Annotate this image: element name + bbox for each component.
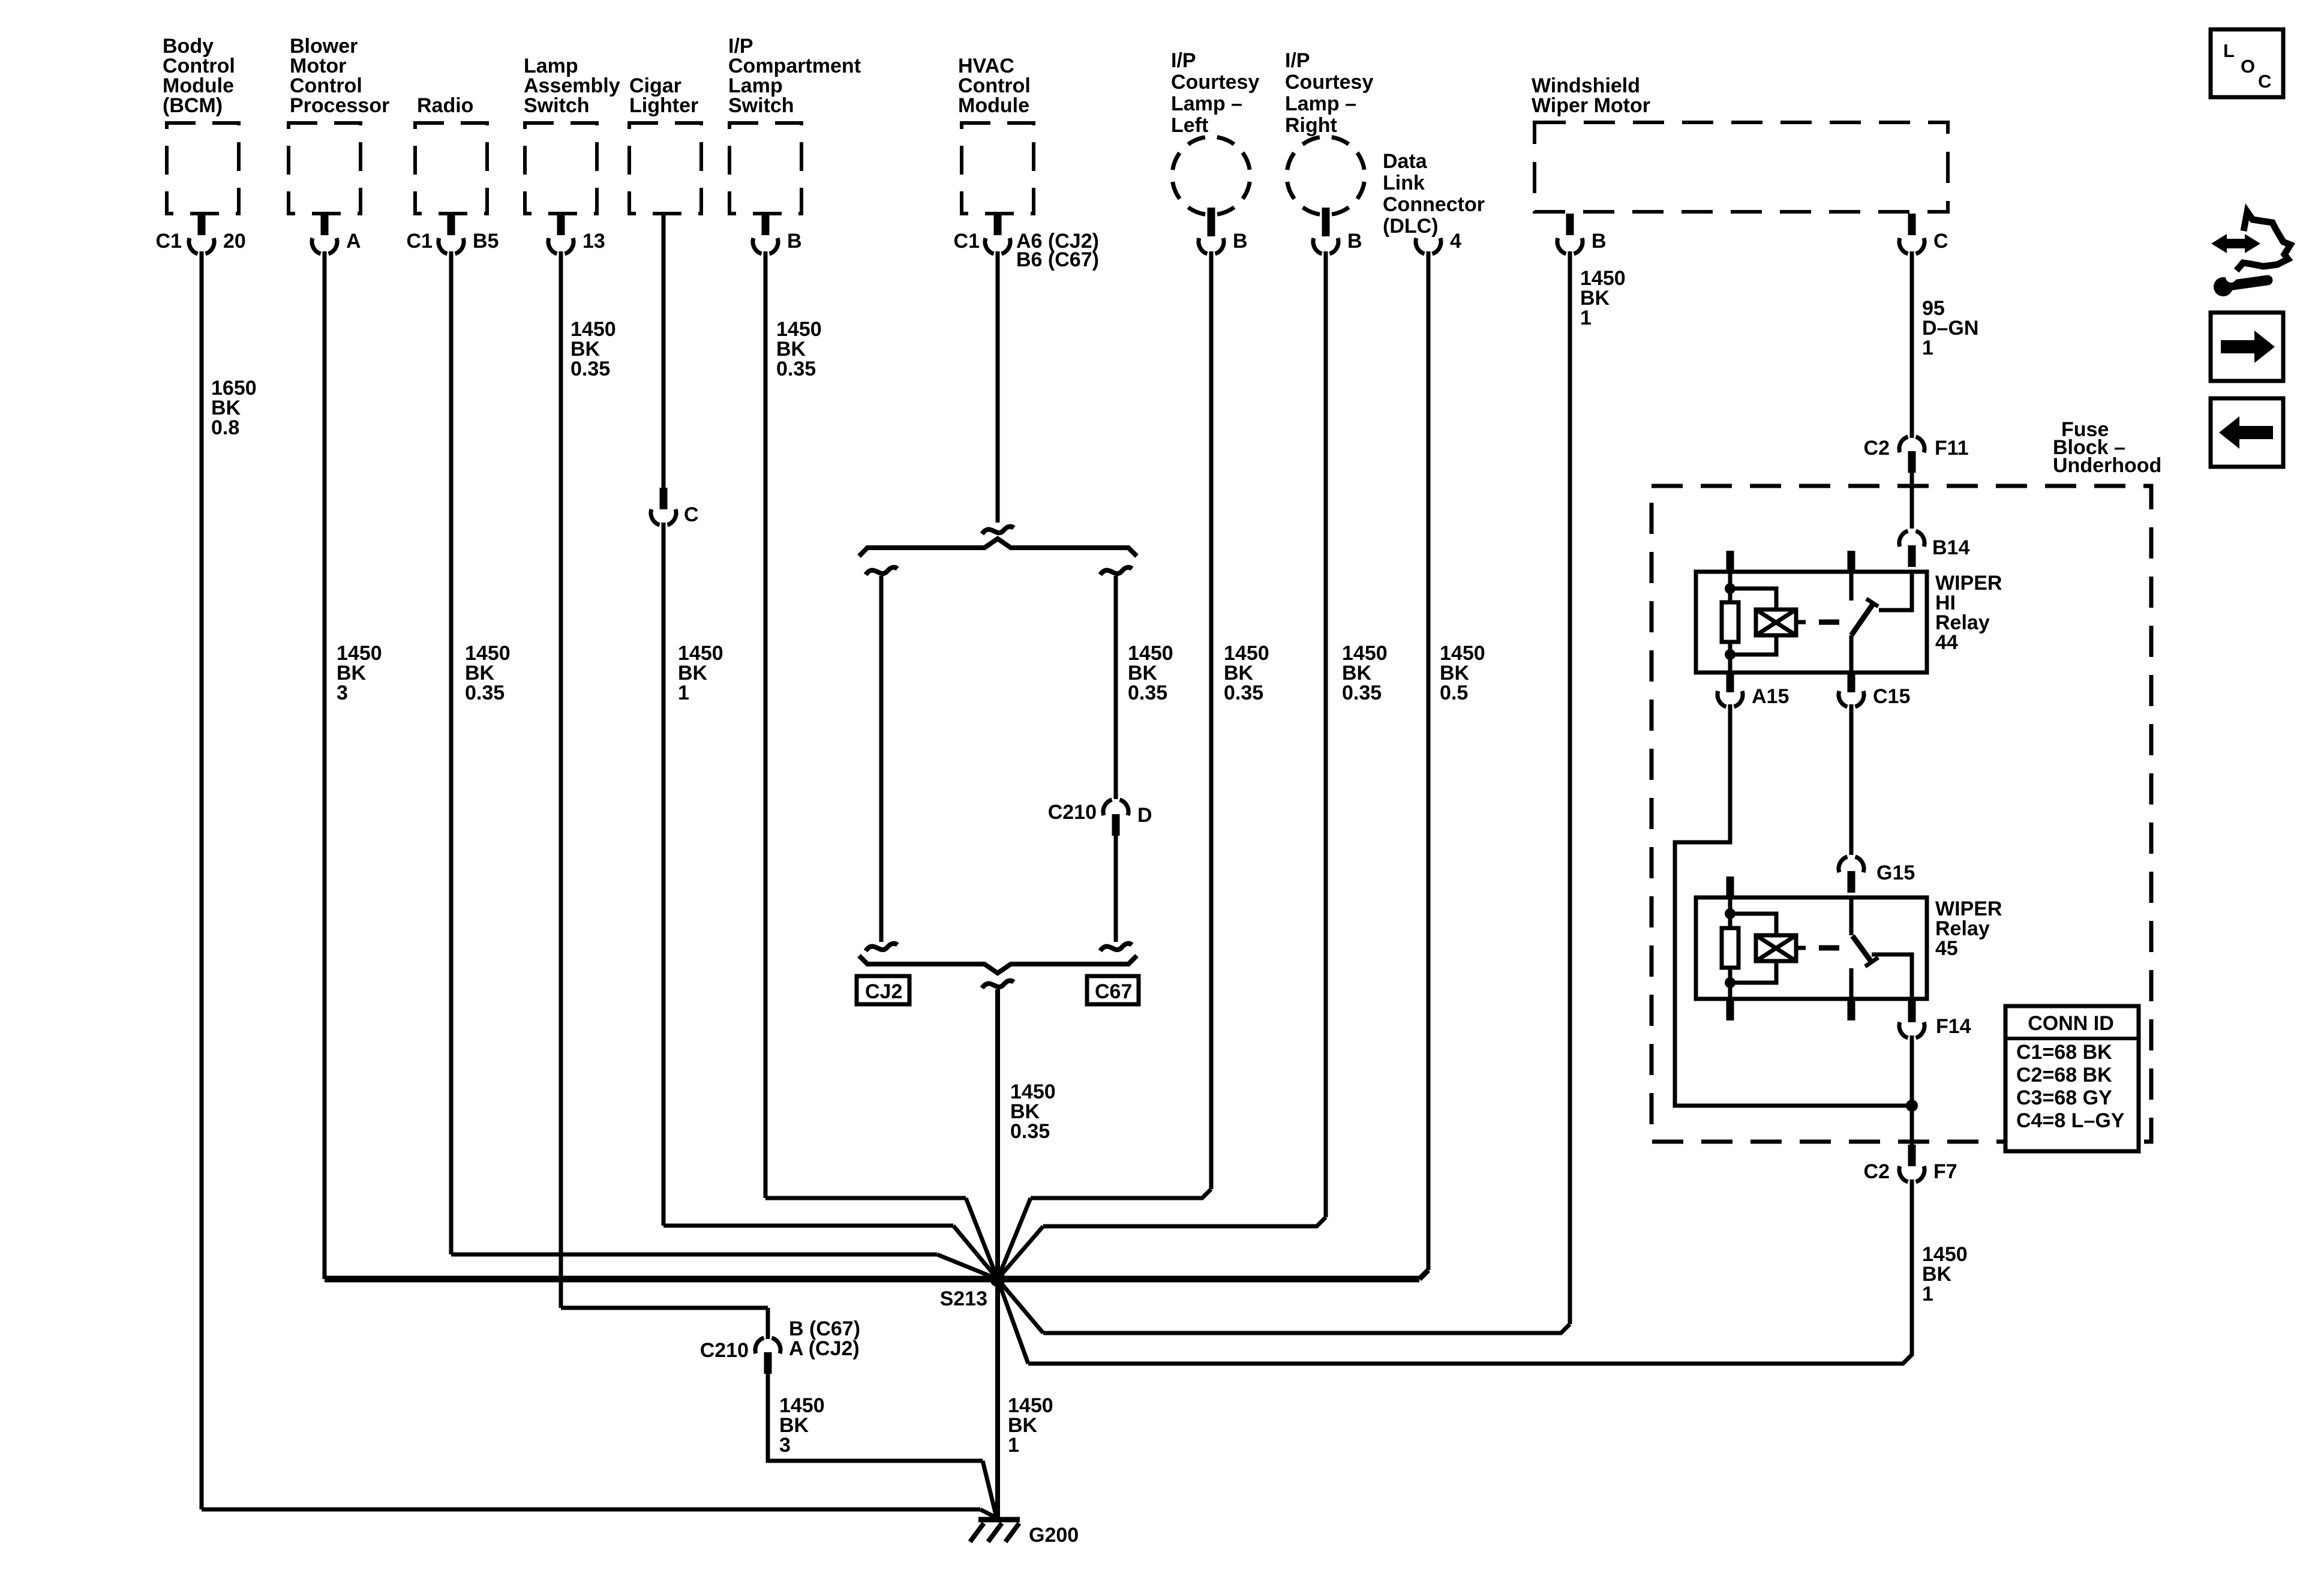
svg-text:C2=68 BK: C2=68 BK xyxy=(2016,1064,2112,1086)
relay coil (relay 44) xyxy=(1756,610,1796,635)
component box: Lamp Assembly Switch xyxy=(525,123,597,214)
junction dot relay45 top xyxy=(1725,908,1736,919)
connector pin: I/P Compartment B xyxy=(762,214,770,235)
svg-text:F14: F14 xyxy=(1936,1015,1971,1038)
connector pin: Radio C1 xyxy=(448,214,455,235)
wire: Wiper Motor C wire 95 D-GN 1 xyxy=(1910,251,1914,438)
connector cup: Wiper Motor pin C xyxy=(1899,238,1908,254)
wire: F14 down to F7 xyxy=(1910,1035,1914,1146)
junction dot relay44 bottom xyxy=(1725,649,1736,660)
wire: I/P Compartment diagonal into splice S213 xyxy=(966,1198,998,1279)
component: I/P Courtesy Lamp - Left (dashed circle) xyxy=(1172,137,1250,215)
wire: Courtesy Right horizontal xyxy=(1043,1217,1326,1226)
connector pin: F7 xyxy=(1908,1145,1916,1166)
relay box: WIPER Relay 45 xyxy=(1696,897,1927,999)
icon: vehicle body outline xyxy=(2236,212,2290,271)
svg-text:Right: Right xyxy=(1285,114,1337,137)
svg-text:S213: S213 xyxy=(940,1287,987,1310)
svg-text:0.35: 0.35 xyxy=(1342,682,1382,704)
wire: I/P Compartment wire 1450 BK 0.35 vertical xyxy=(764,251,768,1198)
svg-text:Processor: Processor xyxy=(290,94,389,117)
wire: Courtesy Left horizontal xyxy=(1031,1189,1211,1198)
connector cup: Cigar inline connector C xyxy=(651,509,660,525)
fuse block: Fuse Block - Underhood (dashed box) xyxy=(1652,486,2151,1142)
svg-text:B: B xyxy=(1233,230,1248,253)
svg-text:Lamp –: Lamp – xyxy=(1285,92,1356,115)
connector cup: A15 xyxy=(1718,691,1727,707)
svg-text:0.35: 0.35 xyxy=(465,682,505,704)
wire: DLC wire 1450 BK 0.5 vertical xyxy=(1427,251,1431,1270)
relay 44 coil parallel link bottom xyxy=(1730,635,1776,655)
svg-text:20: 20 xyxy=(223,230,246,253)
wire: Wiper Motor B wire 1450 BK 1 vertical xyxy=(1568,251,1572,1324)
wire: C67 inner wire lower xyxy=(1114,836,1118,942)
wire: Cigar horizontal to splice xyxy=(663,1224,953,1228)
svg-text:0.35: 0.35 xyxy=(571,358,610,380)
component box: Cigar Lighter xyxy=(629,123,701,214)
svg-text:1: 1 xyxy=(1922,337,1933,359)
svg-text:(DLC): (DLC) xyxy=(1383,215,1439,238)
relay 45 bottom stub right xyxy=(1848,999,1855,1020)
svg-text:C1: C1 xyxy=(407,230,433,253)
connector dome: C2 F11 xyxy=(1899,437,1908,452)
connector cup: F14 xyxy=(1899,1022,1908,1038)
break squiggle left inner top xyxy=(866,568,897,575)
wire: F11 to B14 xyxy=(1910,473,1914,529)
svg-text:Switch: Switch xyxy=(728,94,794,117)
break squiggle left inner bottom xyxy=(866,944,897,951)
relay 44 B14 internal feed xyxy=(1879,572,1912,610)
svg-text:45: 45 xyxy=(1935,937,1958,960)
connector cup: Courtesy Right pin B xyxy=(1313,238,1322,254)
relay 45 coil feed wire xyxy=(1728,897,1733,928)
relay 44 actuator dash xyxy=(1819,620,1839,625)
svg-text:0.35: 0.35 xyxy=(776,358,816,380)
svg-text:C: C xyxy=(1933,230,1948,253)
icon: vehicle directional arrow xyxy=(2211,234,2260,253)
connector pin: Courtesy Right B xyxy=(1322,208,1330,236)
svg-text:Courtesy: Courtesy xyxy=(1285,71,1373,94)
relay 45 blade to F14 internal xyxy=(1872,954,1912,999)
svg-text:44: 44 xyxy=(1935,631,1958,654)
connector dome: B14 xyxy=(1899,531,1908,547)
svg-text:Lighter: Lighter xyxy=(629,94,698,117)
svg-text:Connector: Connector xyxy=(1383,193,1485,216)
svg-text:Left: Left xyxy=(1171,114,1208,137)
ground G200 hatch 2 xyxy=(988,1523,1002,1542)
svg-text:D: D xyxy=(1137,804,1152,827)
svg-text:Module: Module xyxy=(958,94,1029,117)
relay 44 coil actuator stub xyxy=(1796,620,1806,625)
relay 45 coil parallel link top xyxy=(1730,914,1776,935)
ground G200 hatch 1 xyxy=(970,1523,984,1542)
svg-text:Lamp –: Lamp – xyxy=(1171,92,1242,115)
wire: F7 diagonal into splice S213 xyxy=(998,1279,1028,1364)
component box: Body Control Module (BCM) xyxy=(167,123,239,214)
icon: back arrow xyxy=(2219,416,2273,449)
svg-text:C15: C15 xyxy=(1873,685,1910,708)
connector cup: HVAC C1 pins A6/B6 xyxy=(985,238,994,254)
icon: LOC box xyxy=(2211,29,2283,97)
wire: Cigar diagonal into splice S213 xyxy=(953,1226,998,1279)
junction dot F14/A15 xyxy=(1906,1100,1918,1112)
wire: through bus corner chamfer at DLC xyxy=(1419,1270,1428,1279)
svg-text:F11: F11 xyxy=(1935,437,1969,460)
svg-text:B: B xyxy=(787,230,802,253)
svg-text:C1: C1 xyxy=(954,230,980,253)
splice S213 dot xyxy=(990,1271,1005,1287)
wire: C210 ground wire 1450 BK 3 xyxy=(768,1374,983,1461)
break squiggle above top brace xyxy=(982,527,1014,534)
relay 44 top pin stub right xyxy=(1848,551,1855,573)
relay 45 coil parallel link bottom xyxy=(1730,961,1776,983)
connector cup: Courtesy Left pin B xyxy=(1199,238,1208,254)
icon: wrench xyxy=(2229,280,2268,286)
connector pin: F11 xyxy=(1908,451,1916,473)
wire: Lamp Assembly horizontal to C210 xyxy=(561,1306,768,1310)
svg-text:C: C xyxy=(2258,71,2271,92)
connector cup: C15 xyxy=(1839,691,1848,707)
wire: BCM diagonal into ground node xyxy=(980,1509,996,1518)
connector cup: C2 F7 xyxy=(1899,1166,1908,1182)
svg-text:A (CJ2): A (CJ2) xyxy=(789,1337,860,1360)
connector pin: HVAC C1 xyxy=(994,214,1002,235)
relay 45 switch blade xyxy=(1852,936,1872,962)
svg-text:0.8: 0.8 xyxy=(211,416,239,439)
wire: Blower ground wire 1450 BK 3 vertical xyxy=(323,251,327,1279)
connector pin: F14 xyxy=(1908,1001,1916,1022)
svg-text:0.35: 0.35 xyxy=(1010,1120,1050,1143)
svg-text:Underhood: Underhood xyxy=(2053,454,2161,477)
connector pin: G15 xyxy=(1848,871,1855,893)
svg-text:C4=8 L–GY: C4=8 L–GY xyxy=(2016,1109,2125,1132)
relay 45 top pin stub left xyxy=(1727,876,1734,899)
svg-text:Courtesy: Courtesy xyxy=(1171,71,1259,94)
relay 45 coil actuator stub xyxy=(1796,946,1806,950)
wire: Radio ground wire 1450 BK 0.35 vertical xyxy=(449,251,454,1254)
svg-text:1: 1 xyxy=(678,682,689,704)
relay coil (relay 45) xyxy=(1756,935,1796,961)
brace: bottom bundle brace xyxy=(859,956,1137,973)
brace: top bundle brace xyxy=(859,539,1137,556)
wire: C15 to G15 xyxy=(1849,704,1854,855)
svg-text:B6 (C67): B6 (C67) xyxy=(1016,248,1099,271)
svg-text:C3=68 GY: C3=68 GY xyxy=(2016,1086,2112,1109)
wire: C210 diagonal into ground node xyxy=(983,1461,996,1517)
svg-text:A15: A15 xyxy=(1752,685,1789,708)
svg-text:3: 3 xyxy=(779,1434,791,1457)
junction dot relay45 bottom xyxy=(1725,977,1736,988)
wire: BCM bottom horizontal to G200 xyxy=(202,1508,980,1512)
break squiggle below bottom brace xyxy=(982,981,1014,988)
connector cup: DLC pin 4 xyxy=(1416,238,1425,254)
relay 45 fixed contact stub xyxy=(1849,968,1854,999)
connector name box C67 xyxy=(1087,976,1139,1004)
wire: Wiper Motor B horizontal xyxy=(1043,1324,1570,1333)
table: CONN ID header separator xyxy=(2005,1037,2139,1040)
relay 44 fixed contact stub xyxy=(1849,572,1854,601)
connector pin: A15 xyxy=(1727,674,1734,692)
wire: Courtesy Left wire 1450 BK 0.35 vertical xyxy=(1209,251,1214,1189)
svg-text:C2: C2 xyxy=(1864,1160,1890,1183)
wire: Radio diagonal into splice S213 xyxy=(937,1254,998,1279)
wire: Lamp Assembly wire 1450 BK 0.35 vertical xyxy=(559,251,563,1308)
relay 45 actuator dash xyxy=(1819,945,1839,951)
connector cup: Lamp Assembly pin 13 xyxy=(548,238,557,254)
wire: A15 to F14 junction xyxy=(1675,704,1912,1106)
component box: HVAC Control Module xyxy=(962,123,1034,214)
break squiggle right inner top xyxy=(1100,568,1132,575)
connector dome: C210 (ground feed) xyxy=(755,1338,764,1353)
connector pin: Wiper Motor B xyxy=(1566,214,1574,235)
svg-text:B5: B5 xyxy=(473,230,499,253)
svg-text:Data: Data xyxy=(1383,150,1428,173)
wire: Cigar ground wire 1450 BK 1 vertical xyxy=(662,523,666,1226)
wire: Courtesy Left diagonal into splice S213 xyxy=(998,1198,1031,1279)
svg-text:13: 13 xyxy=(582,230,605,253)
svg-text:0.35: 0.35 xyxy=(1128,682,1167,704)
svg-text:0.5: 0.5 xyxy=(1440,682,1468,704)
svg-text:0.35: 0.35 xyxy=(1224,682,1263,704)
wire: Courtesy Right diagonal into splice S213 xyxy=(998,1226,1043,1279)
svg-text:1: 1 xyxy=(1922,1283,1933,1305)
wire: Radio horizontal to splice xyxy=(451,1253,937,1257)
relay 44 coil feed wire xyxy=(1728,572,1733,602)
connector name box CJ2 xyxy=(857,976,909,1004)
icon: back arrow box xyxy=(2211,398,2283,467)
component: I/P Courtesy Lamp - Right (dashed circle) xyxy=(1287,137,1365,215)
wire: S213 to G200 1450 BK 1 xyxy=(995,1279,1000,1519)
svg-text:CONN ID: CONN ID xyxy=(2028,1012,2114,1035)
wire: vertical into C210 connector xyxy=(766,1308,770,1339)
connector pin: B14 xyxy=(1908,545,1916,567)
svg-text:Link: Link xyxy=(1383,172,1425,194)
connector cup: Radio C1 pin B5 xyxy=(439,238,448,254)
svg-text:B: B xyxy=(1347,230,1362,253)
connector cup: BCM C1 pin 20 xyxy=(189,238,198,254)
connector pin: BCM C1 xyxy=(198,214,206,235)
connector pin: Cigar C inline xyxy=(660,488,668,509)
ground G200 hatch 3 xyxy=(1005,1523,1019,1542)
wire: I/P Compartment horizontal to splice xyxy=(765,1196,966,1200)
wire: Wiper B diagonal into splice S213 xyxy=(998,1279,1043,1333)
connector cup: I/P Compartment pin B xyxy=(753,238,762,254)
svg-text:A: A xyxy=(346,230,361,253)
relay 45 resistor bottom wire xyxy=(1728,968,1733,999)
relay 44 switch blade xyxy=(1851,604,1873,635)
svg-text:C67: C67 xyxy=(1095,980,1132,1003)
svg-text:I/P: I/P xyxy=(1171,49,1196,72)
svg-text:Radio: Radio xyxy=(417,94,473,117)
connector dome: C210 pin D xyxy=(1103,800,1112,815)
junction dot relay44 top xyxy=(1725,583,1736,594)
svg-text:B14: B14 xyxy=(1932,536,1969,559)
component box: I/P Compartment Lamp Switch xyxy=(729,123,801,214)
svg-text:I/P: I/P xyxy=(1285,49,1310,72)
resistor R (relay 44) xyxy=(1722,602,1739,642)
svg-text:4: 4 xyxy=(1450,230,1461,253)
relay 44 top pin stub left xyxy=(1727,551,1734,573)
svg-text:C: C xyxy=(684,503,699,526)
component box: Windshield Wiper Motor xyxy=(1535,122,1948,212)
svg-text:CJ2: CJ2 xyxy=(865,980,902,1003)
svg-text:G200: G200 xyxy=(1029,1524,1079,1547)
svg-text:C1: C1 xyxy=(156,230,182,253)
svg-text:L: L xyxy=(2223,40,2235,61)
svg-text:C2: C2 xyxy=(1864,437,1890,460)
table: CONN ID box xyxy=(2005,1006,2139,1151)
wire: BCM ground wire 1650 BK 0.8 vertical xyxy=(200,251,204,1509)
svg-text:3: 3 xyxy=(337,682,348,704)
svg-text:Switch: Switch xyxy=(524,94,590,117)
relay 44 resistor bottom wire xyxy=(1728,642,1733,673)
connector pin: C15 xyxy=(1848,674,1855,692)
svg-text:G15: G15 xyxy=(1876,861,1915,884)
wire: HVAC wire vertical to brace xyxy=(996,251,1000,523)
icon: forward arrow xyxy=(2221,331,2275,363)
wire: Cigar Lighter lead xyxy=(662,212,666,489)
relay box: WIPER HI Relay 44 xyxy=(1696,572,1927,673)
wire: Courtesy Right wire 1450 BK 0.35 vertical xyxy=(1324,251,1328,1217)
svg-text:B: B xyxy=(1592,230,1607,253)
svg-text:O: O xyxy=(2241,56,2255,77)
wire: HVAC combined wire 1450 BK 0.35 to splice xyxy=(995,989,1000,1279)
svg-text:Wiper Motor: Wiper Motor xyxy=(1532,94,1650,117)
relay 45 pole wire from G15 xyxy=(1849,897,1854,935)
connector cup: Blower pin A xyxy=(312,238,321,254)
svg-text:1: 1 xyxy=(1008,1434,1019,1457)
resistor R (relay 45) xyxy=(1722,928,1739,968)
svg-text:F7: F7 xyxy=(1933,1160,1957,1183)
component box: Radio xyxy=(415,123,487,214)
connector pin: C210 D xyxy=(1112,814,1120,836)
connector cup: Wiper Motor pin B xyxy=(1557,238,1566,254)
svg-text:C210: C210 xyxy=(700,1339,749,1362)
svg-text:(BCM): (BCM) xyxy=(163,94,223,117)
break squiggle right inner bottom xyxy=(1100,944,1132,951)
connector pin: Wiper Motor C xyxy=(1908,214,1916,235)
wire: through horizontal bus into splice S213 xyxy=(325,1276,1419,1283)
connector pin: C210 B/A xyxy=(764,1352,772,1374)
connector pin: Lamp Assembly 13 xyxy=(557,214,565,235)
wire: CJ2 inner wire xyxy=(879,576,884,942)
svg-text:C1=68 BK: C1=68 BK xyxy=(2016,1041,2112,1064)
component box: Blower Motor Control Processor xyxy=(289,123,361,214)
relay 45 blade tip tick xyxy=(1865,957,1878,966)
wire: C67 inner wire upper xyxy=(1114,576,1118,799)
relay 45 bottom stub left xyxy=(1727,999,1734,1020)
connector pin: Blower A xyxy=(321,214,329,235)
connector dome: G15 xyxy=(1839,857,1848,872)
relay 44 coil parallel link top xyxy=(1730,589,1776,610)
svg-text:C210: C210 xyxy=(1048,801,1097,824)
ground G200 bar xyxy=(978,1517,1020,1523)
relay 44 common wire to C15 xyxy=(1849,635,1854,673)
relay 44 blade tip tick xyxy=(1866,599,1878,607)
connector pin: Courtesy Left B xyxy=(1208,208,1215,236)
icon: forward arrow box xyxy=(2211,313,2283,381)
svg-text:1: 1 xyxy=(1580,307,1592,329)
wire: F7 wire 1450 BK 1 xyxy=(1028,1179,1912,1364)
